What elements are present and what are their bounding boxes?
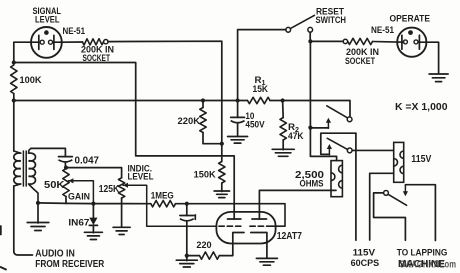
ground below cathode	[256, 258, 277, 265]
tube left plate	[228, 218, 241, 220]
relay coil K1 2500 ohms	[331, 161, 342, 197]
label INDIC. LEVEL	[128, 162, 154, 181]
node secondary/50K ground	[36, 201, 40, 205]
label 115V 60CPS	[351, 247, 380, 268]
svg-text:50K: 50K	[44, 180, 65, 191]
ground below 1uF cap	[176, 256, 197, 267]
ground below 10uF	[228, 137, 248, 144]
svg-text:47K: 47K	[288, 131, 304, 141]
tube 12AT7 envelope	[216, 212, 275, 244]
node left rail / plate branch	[12, 60, 16, 64]
label 115V (relay coil)	[411, 154, 431, 165]
resistor R1 15K	[248, 97, 271, 103]
label R2	[288, 122, 299, 134]
svg-text:SWITCH: SWITCH	[316, 15, 347, 26]
wire operate branch down	[309, 41, 311, 127]
pot wiper 50K	[68, 178, 93, 203]
label SIGNAL LEVEL	[33, 6, 62, 26]
svg-text:NE-51: NE-51	[63, 26, 86, 36]
wire plate feed (left plate of 12AT7)	[14, 63, 234, 220]
diode IN67	[89, 204, 97, 226]
node 220K/150K/plate-wire junction	[220, 142, 224, 146]
wire audio input lead	[14, 251, 33, 255]
wire K2a arm to lapping terminal	[405, 185, 435, 241]
label 220K	[178, 116, 201, 126]
wire coil K2 to 115VAC leg 2	[370, 173, 394, 240]
svg-text:K =X 1,000: K =X 1,000	[395, 102, 448, 113]
label NE-51 (signal lamp)	[63, 26, 86, 36]
wire secondary to 0.047 cap	[31, 148, 66, 156]
tube left cathode	[233, 233, 244, 237]
resistor 150K	[219, 144, 225, 183]
wire R1 to R2 node	[270, 100, 283, 102]
wire B+ rail	[14, 100, 238, 102]
svg-text:150K: 150K	[194, 169, 216, 179]
svg-text:115V: 115V	[411, 154, 431, 165]
wire K1b to relay K2 coil	[352, 149, 394, 151]
transformer T1 primary	[14, 101, 21, 252]
relay contact K1a (latch)	[310, 106, 352, 128]
label MACHINE (watermarked)	[398, 259, 456, 270]
node operate-lamp branch	[308, 39, 312, 43]
node grid coupling	[185, 202, 189, 206]
ground below R2	[272, 140, 294, 157]
indicator lamp DS2 NE-51 OPERATE	[397, 28, 426, 57]
wire gain bottom bus	[38, 202, 93, 205]
wire detector to 1MEG	[93, 203, 150, 205]
label RESET SWITCH	[316, 7, 347, 26]
wire 115VAC leg 1	[355, 133, 357, 240]
wire grid node to right grid	[187, 204, 285, 227]
resistor 100K	[11, 65, 17, 101]
svg-text:AUDIO IN: AUDIO IN	[35, 248, 75, 259]
ground below operate lamp	[429, 74, 448, 82]
label 47K	[288, 131, 304, 141]
label TO LAPPING	[397, 247, 448, 258]
label K = X 1,000	[395, 102, 448, 113]
wire lamp1 right to resistor	[62, 41, 83, 43]
capacitor 0.047	[59, 157, 73, 168]
wire K1 junction to coil	[310, 128, 336, 161]
ground below 125K	[113, 227, 130, 234]
svg-text:LEVEL: LEVEL	[128, 171, 154, 182]
svg-text:125K: 125K	[99, 184, 120, 195]
svg-text:FROM RECEIVER: FROM RECEIVER	[35, 259, 104, 270]
transformer core	[23, 151, 26, 186]
svg-text:100K: 100K	[20, 75, 42, 85]
svg-text:15K: 15K	[253, 84, 269, 94]
label 100K	[20, 75, 42, 85]
relay contact K1b bracket	[321, 133, 356, 154]
transformer T1 secondary	[29, 148, 39, 203]
node filter cap top	[236, 98, 240, 102]
node 100K bottom / B+ rail	[12, 98, 16, 102]
label GAIN	[68, 191, 90, 202]
svg-text:220K: 220K	[178, 116, 201, 126]
reset switch S1	[286, 15, 315, 41]
wire top run to 220K/150K junction	[108, 41, 222, 144]
label 200K IN SOCKET (left)	[81, 45, 114, 64]
relay contact K2a	[384, 185, 408, 205]
svg-text:60CPS: 60CPS	[351, 257, 380, 268]
label 0.047	[75, 155, 100, 166]
wire 200K to operate lamp	[373, 41, 404, 44]
tube right plate	[252, 218, 267, 220]
svg-text:LEVEL: LEVEL	[35, 15, 60, 26]
svg-text:450V: 450V	[245, 119, 265, 129]
relay coil K2 115V	[394, 142, 404, 182]
label 2,500 OHMS	[295, 170, 325, 188]
node 1uF/220 junction	[185, 254, 189, 258]
tube left grid (dashed)	[219, 225, 241, 227]
wire lamp1 to left rail	[14, 42, 31, 62]
resistor 220	[187, 236, 233, 259]
node 220K top	[201, 98, 205, 102]
tube right cathode	[251, 233, 267, 259]
svg-text:IN67: IN67	[68, 216, 89, 227]
node R2 top	[281, 98, 285, 102]
label 1MEG	[151, 189, 174, 200]
wire rail to R1	[238, 100, 248, 102]
wire 125K to ground	[121, 198, 123, 227]
relay contact K1b	[327, 138, 352, 154]
label 150K	[194, 169, 216, 179]
label AUDIO IN FROM RECEIVER	[35, 248, 104, 270]
ground below 150K	[214, 183, 230, 198]
label IN67	[68, 216, 89, 227]
label OPERATE	[390, 13, 431, 24]
wire coil K1 to plate	[259, 190, 336, 219]
node relay K1 coil/contact junction	[308, 126, 312, 130]
wire 1MEG to grid node	[176, 203, 187, 205]
svg-text:SWAGHKNEom: SWAGHKNEom	[400, 259, 457, 270]
svg-text:1MEG: 1MEG	[151, 189, 174, 200]
resistor 200K IN SOCKET (operate)	[343, 38, 372, 44]
node detector junction	[91, 202, 95, 206]
wire reset-switch riser	[238, 30, 286, 101]
wire to 200K socket (operate)	[310, 40, 343, 42]
scan artifact left edge	[0, 226, 2, 235]
pot wiper 125K to left grid	[123, 183, 217, 227]
wire junction to 125K	[66, 168, 122, 178]
node 0.047/50K/125K junction	[64, 166, 68, 170]
capacitor 1uF	[180, 204, 194, 256]
svg-text:TO LAPPING: TO LAPPING	[397, 247, 448, 258]
label NE-51 (operate lamp)	[371, 25, 394, 35]
label 1 (cap)	[194, 215, 196, 220]
svg-text:0.047: 0.047	[75, 155, 100, 166]
label 200K IN SOCKET (right)	[345, 47, 379, 66]
wire rail to contact K1a	[283, 101, 350, 117]
indicator lamp DS1 NE-51 SIGNAL LEVEL	[31, 27, 62, 58]
potentiometer 125K	[118, 178, 124, 198]
resistor 220K	[200, 101, 222, 144]
ground below IN67	[84, 225, 102, 239]
svg-text:OPERATE: OPERATE	[390, 13, 431, 24]
svg-text:OHMS: OHMS	[300, 179, 324, 189]
label 15K	[253, 84, 269, 94]
label 125K	[99, 184, 120, 195]
label R1	[255, 75, 266, 87]
svg-text:GAIN: GAIN	[68, 191, 90, 202]
svg-text:SOCKET: SOCKET	[345, 56, 375, 66]
svg-text:220: 220	[196, 239, 211, 250]
svg-text:12AT7: 12AT7	[277, 231, 303, 242]
label 220	[196, 239, 211, 250]
svg-text:NE-51: NE-51	[371, 25, 394, 35]
wire K2a fixed side to lapping terminal	[374, 193, 406, 240]
ground below secondary	[27, 203, 49, 231]
label 12AT7	[277, 231, 303, 242]
resistor 1MEG	[151, 201, 176, 207]
tube right grid (dashed)	[250, 225, 271, 227]
scan artifact bottom left	[1, 267, 7, 270]
wire operate lamp to ground	[419, 42, 438, 73]
label 10 450V	[245, 111, 265, 129]
label 50K	[44, 180, 65, 191]
resistor R2 47K	[280, 101, 286, 141]
resistor 200K IN SOCKET (signal)	[83, 39, 109, 45]
capacitor 10uF 450V	[231, 101, 245, 137]
potentiometer 50K GAIN	[63, 169, 69, 204]
